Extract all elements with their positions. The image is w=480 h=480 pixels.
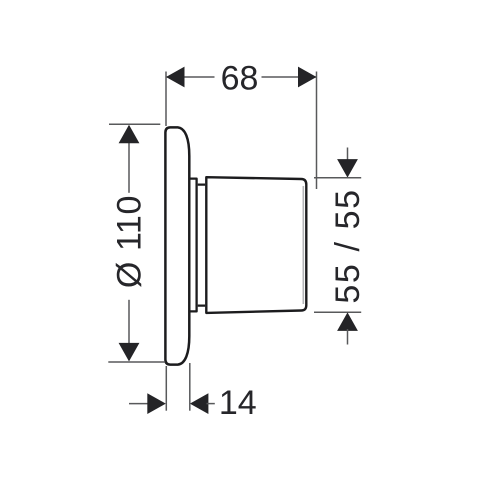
svg-text:Ø 110: Ø 110: [111, 195, 149, 288]
dimension 68 : right arrow: [298, 67, 317, 88]
dimension 55/55 : top stub: [347, 148, 349, 162]
dimension D110 : bottom extension line: [108, 361, 165, 363]
dimension 14 : right line: [207, 403, 215, 405]
escutcheon plate (side profile): [165, 127, 189, 364]
handle cylinder: [206, 177, 306, 313]
dimension 14 : left extension line: [165, 366, 167, 411]
svg-text:14: 14: [219, 384, 257, 422]
dimension 55/55 : bottom arrow: [337, 312, 358, 331]
dimension D110 : bottom arrow: [119, 343, 140, 362]
dimension 68 : left extension line: [165, 72, 167, 127]
dimension 68 : right extension line: [316, 72, 318, 190]
dimension D110 : label: [111, 195, 149, 288]
dimension D110 : top arrow: [119, 125, 140, 144]
dimension D110 : line: [128, 126, 130, 360]
dimension 14 : left arrow: [147, 393, 166, 414]
dimension 55/55 : label: [329, 188, 367, 303]
dimension 55/55 : bottom stub: [347, 329, 349, 345]
chamfer highlight on handle face: [302, 186, 304, 304]
svg-text:55 / 55: 55 / 55: [329, 188, 367, 303]
dimension 68 : line: [166, 76, 317, 78]
dimension D110 : top extension line: [109, 123, 160, 125]
dimension 55/55 : bottom extension line: [314, 311, 361, 313]
svg-text:68: 68: [221, 60, 259, 98]
collar sleeve behind plate: [191, 179, 197, 312]
dimension 55/55 : top arrow: [337, 159, 358, 178]
dimension 68 : label: [221, 60, 259, 98]
narrow neck: [198, 185, 206, 306]
dimension 14 : right extension line: [189, 363, 191, 411]
dimension 68 : left arrow: [166, 67, 185, 88]
dimension 14 : right arrow: [190, 393, 209, 414]
dimension 14 : left line: [129, 403, 149, 405]
dimension 55/55 : top extension line: [314, 177, 361, 179]
dimension 14 : label: [219, 384, 257, 422]
